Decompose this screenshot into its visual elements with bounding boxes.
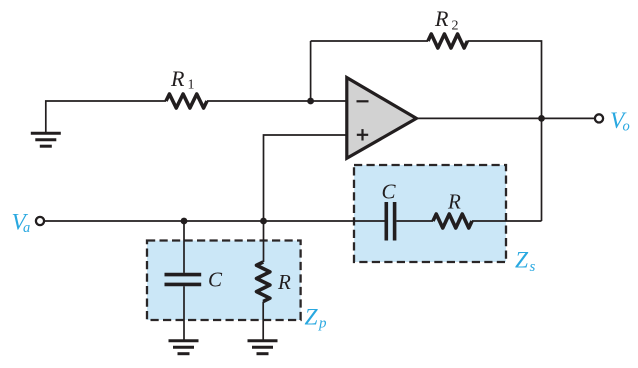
ground (C branch) xyxy=(169,341,199,354)
resistor R1 xyxy=(166,94,207,108)
resistor R (Zp) xyxy=(257,262,270,301)
svg-text:Z: Z xyxy=(305,304,319,330)
capacitor C (Zp) xyxy=(165,275,202,285)
node output xyxy=(538,115,545,122)
wire xyxy=(310,41,312,101)
wire xyxy=(472,220,542,222)
svg-text:s: s xyxy=(530,259,536,275)
capacitor C (Zs) xyxy=(386,202,394,241)
wire xyxy=(467,41,541,118)
svg-text:1: 1 xyxy=(188,78,195,93)
svg-text:Z: Z xyxy=(515,248,529,274)
wire xyxy=(311,40,428,42)
wire xyxy=(263,221,265,262)
node R branch xyxy=(260,218,267,225)
svg-text:C: C xyxy=(208,267,223,291)
terminal Va xyxy=(36,217,44,225)
wire xyxy=(207,100,347,102)
wire xyxy=(541,118,543,221)
wire xyxy=(264,135,347,221)
svg-text:R: R xyxy=(277,270,291,294)
wire xyxy=(396,220,433,222)
ground (R1 input) xyxy=(31,133,61,146)
wire xyxy=(262,302,264,341)
svg-text:o: o xyxy=(623,118,630,134)
wire xyxy=(46,101,166,133)
terminal Vo xyxy=(595,114,603,122)
resistor R2 xyxy=(428,34,467,48)
svg-text:R: R xyxy=(434,6,449,31)
svg-text:R: R xyxy=(170,66,185,91)
wire xyxy=(44,220,384,222)
node inverting input xyxy=(307,98,314,105)
svg-text:R: R xyxy=(447,190,461,214)
wire xyxy=(416,117,594,119)
impedance block Zp xyxy=(147,241,301,321)
svg-text:p: p xyxy=(318,316,327,332)
svg-text:C: C xyxy=(382,179,397,203)
resistor R (Zs) xyxy=(433,214,472,228)
impedance block Zs xyxy=(354,165,506,262)
svg-text:a: a xyxy=(23,220,30,236)
node C branch xyxy=(181,218,188,225)
svg-text:2: 2 xyxy=(452,19,459,34)
op-amp U1 xyxy=(347,78,417,159)
wire xyxy=(183,221,185,273)
ground (R branch) xyxy=(248,341,278,354)
wire xyxy=(183,286,185,341)
